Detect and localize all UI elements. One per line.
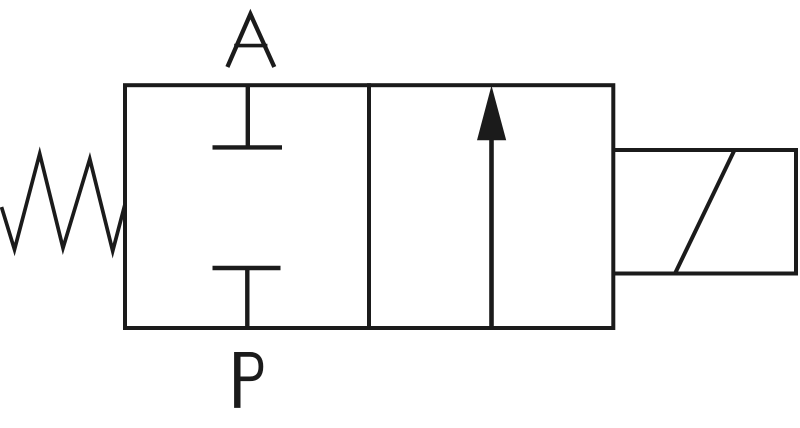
port A stub — [246, 85, 250, 146]
flow arrow head — [477, 86, 506, 141]
flow arrow shaft — [489, 130, 494, 328]
port P blocked seat bar — [213, 266, 281, 270]
port A blocked seat bar — [213, 145, 283, 149]
port P stub — [245, 268, 249, 328]
label P — [237, 352, 261, 408]
valve body right square — [369, 85, 613, 328]
spring — [2, 154, 125, 251]
valve body left square — [125, 85, 369, 328]
label A — [227, 14, 274, 67]
solenoid diagonal — [675, 150, 735, 274]
solenoid box — [614, 150, 797, 274]
